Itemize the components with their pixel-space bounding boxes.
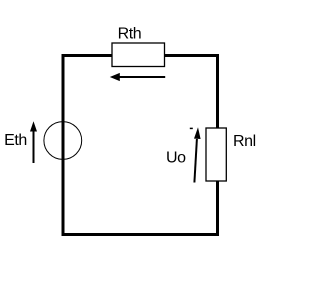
wire: top-right segment and upper-right side xyxy=(165,56,218,129)
svg-text:Eth: Eth xyxy=(4,132,27,149)
Eth arrow (pointing up) xyxy=(30,121,37,163)
wire: left side, bottom, lower-right segment xyxy=(63,56,218,235)
source Eth (circle) xyxy=(44,122,82,160)
polarity tick near Uo arrow tip xyxy=(190,127,193,129)
resistor Rth xyxy=(112,43,165,67)
current arrow under Rth (pointing left) xyxy=(110,73,165,81)
resistor Rnl xyxy=(206,128,226,181)
svg-text:Rth: Rth xyxy=(118,26,142,43)
svg-text:Uo: Uo xyxy=(166,149,186,166)
svg-text:Rnl: Rnl xyxy=(233,133,256,150)
Uo arrow (pointing up, slightly slanted) xyxy=(194,127,201,182)
